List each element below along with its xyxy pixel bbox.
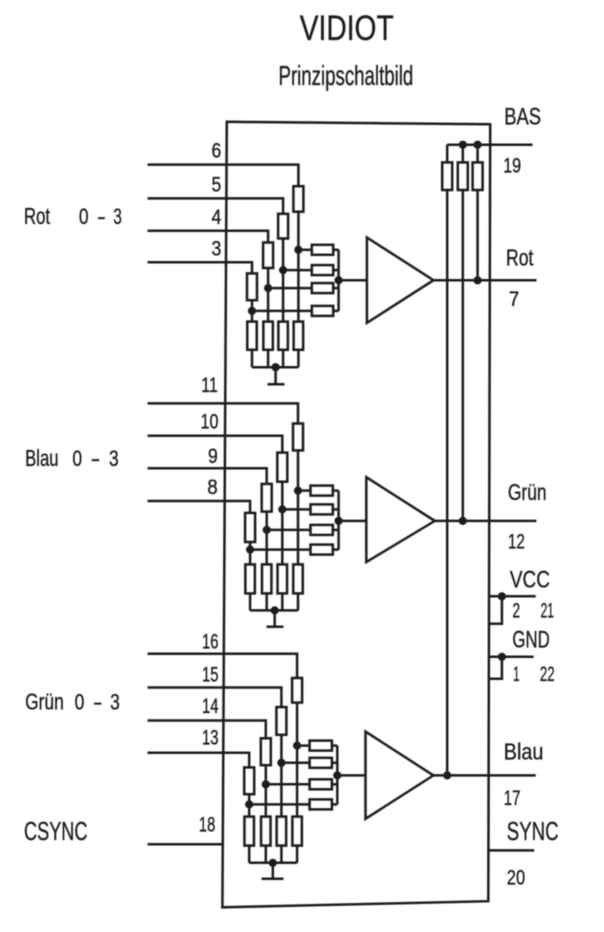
svg-text:22: 22	[540, 662, 555, 686]
ground block 2	[267, 610, 284, 626]
svg-text:VCC: VCC	[510, 567, 550, 594]
wire node to summing resistor	[267, 529, 311, 532]
resistor R25	[292, 678, 302, 703]
resistor R34	[277, 817, 287, 846]
svg-text:10: 10	[201, 410, 219, 434]
wire summing resistor to bus	[333, 287, 338, 290]
resistor R12	[247, 322, 257, 350]
resistor R38	[458, 162, 468, 190]
wire node to summing resistor	[266, 783, 310, 786]
wire input pin 8	[148, 501, 251, 513]
node BAS-chainB junction	[459, 141, 467, 149]
svg-text:14: 14	[202, 694, 219, 718]
node block2 row2	[278, 505, 286, 513]
resistor R35	[261, 817, 271, 846]
resistor R2	[278, 214, 288, 239]
resistor R20	[311, 545, 333, 555]
wire input pin 13	[148, 753, 250, 768]
wire ladder resistor to ground rail	[296, 846, 299, 863]
IC boundary box U1 outline	[222, 122, 490, 908]
svg-text:Rot: Rot	[506, 245, 534, 271]
svg-text:Blau: Blau	[25, 445, 59, 471]
wire summing bus block 2	[337, 491, 340, 550]
wire input pin 11	[148, 403, 299, 423]
resistor R1	[293, 186, 303, 212]
resistor R21	[293, 564, 303, 593]
wire node to summing resistor	[283, 269, 312, 272]
wire ladder resistor to ground rail	[281, 593, 284, 610]
svg-text:-: -	[97, 204, 106, 229]
op-amp U1	[367, 238, 434, 323]
wire ladder resistor to ground rail	[248, 846, 251, 863]
wire ladder resistor to ground rail	[265, 593, 268, 610]
svg-text:Blau: Blau	[504, 738, 544, 764]
svg-text:Grün: Grün	[508, 479, 547, 505]
wire output Rot pin 7	[434, 279, 537, 282]
wire summing bus block 1	[337, 250, 340, 311]
wire chain pin 4 to ladder	[267, 268, 270, 322]
svg-text:20: 20	[507, 865, 525, 889]
node summing junction block 1	[335, 276, 343, 284]
node block3 row2	[277, 759, 285, 767]
wire output Blau pin 17	[433, 774, 535, 777]
wire summing resistor to bus	[333, 310, 338, 313]
resistor R7	[312, 283, 333, 293]
resistor R27	[261, 738, 271, 765]
wire GND pin loop	[490, 657, 502, 679]
wire resistor R38 to Gruen net	[462, 190, 465, 521]
resistor R29	[310, 741, 332, 751]
wire node to summing resistor	[252, 310, 312, 313]
node ground junction block 2	[271, 606, 279, 614]
svg-text:VIDIOT: VIDIOT	[300, 9, 394, 48]
wire VCC pins 2 and 21	[490, 595, 536, 598]
resistor R36	[244, 817, 254, 846]
svg-text:5: 5	[212, 172, 222, 196]
wire resistor R39 to Rot net	[476, 190, 479, 280]
resistor R26	[276, 707, 286, 735]
wire ladder resistor to ground rail	[297, 350, 300, 367]
svg-text:BAS: BAS	[504, 103, 541, 130]
wire summing resistor to bus	[332, 783, 337, 786]
wire summing resistor to bus	[333, 249, 338, 252]
wire node to summing resistor	[297, 744, 310, 747]
resistor R3	[263, 243, 273, 269]
wire summing resistor to bus	[333, 548, 339, 551]
node block3 row1	[293, 742, 301, 750]
wire input pin 5	[148, 198, 284, 213]
resistor R6	[312, 265, 333, 275]
resistor R13	[293, 424, 303, 451]
svg-text:7: 7	[509, 287, 519, 311]
wire to amplifier U3	[337, 774, 365, 777]
resistor R31	[310, 779, 332, 789]
wire input pin 3	[148, 262, 253, 273]
node block2 row3	[263, 526, 271, 534]
wire node to summing resistor	[249, 803, 309, 806]
wire summing resistor to bus	[332, 803, 337, 806]
svg-text:-: -	[93, 690, 103, 715]
wire summing resistor to bus	[333, 489, 339, 492]
wire input pin 9	[148, 468, 267, 484]
wire ladder resistor to ground rail	[282, 350, 285, 367]
wire input CSYNC pin 18	[148, 843, 224, 846]
resistor R15	[262, 484, 272, 512]
wire to amplifier U2	[339, 520, 367, 523]
wire summing bus block 3	[336, 746, 339, 805]
wire node to summing resistor	[281, 762, 309, 765]
node GND junction	[498, 653, 506, 661]
node summing junction block 2	[335, 517, 343, 525]
resistor R11	[263, 322, 273, 350]
resistor R22	[278, 564, 288, 593]
svg-text:0: 0	[72, 446, 82, 471]
resistor R10	[278, 322, 288, 350]
svg-text:Prinzipschaltbild: Prinzipschaltbild	[279, 60, 414, 91]
svg-text:2: 2	[512, 598, 520, 622]
node block2 row4	[246, 546, 254, 554]
wire BAS to resistor R37	[446, 145, 449, 163]
wire chain pin 16 to ladder	[296, 703, 299, 817]
node block1 row4	[248, 307, 256, 315]
resistor R37	[442, 162, 452, 190]
wire ground rail block 1	[252, 366, 298, 369]
svg-text:0: 0	[79, 204, 89, 229]
node Rot-R39 junction	[474, 276, 482, 284]
resistor R39	[473, 162, 483, 190]
wire VCC pin loop	[490, 596, 502, 624]
op-amp U2	[366, 477, 435, 562]
wire chain pin 5 to ladder	[282, 239, 285, 322]
resistor R9	[294, 322, 304, 350]
resistor R4	[247, 273, 257, 300]
node Gruen-R38 junction	[459, 517, 467, 525]
svg-text:11: 11	[201, 373, 218, 397]
svg-text:16: 16	[202, 630, 219, 654]
wire input pin 16	[148, 654, 298, 678]
resistor R23	[262, 564, 272, 593]
wire ladder resistor to ground rail	[267, 350, 270, 367]
wire chain pin 14 to ladder	[265, 765, 268, 816]
ground block 1	[268, 367, 285, 384]
svg-text:6: 6	[212, 139, 222, 163]
svg-text:GND: GND	[512, 627, 549, 654]
node block1 row1	[294, 246, 302, 254]
ground block 3	[262, 863, 284, 879]
wire ground rail block 2	[250, 609, 298, 612]
wire chain pin 6 to ladder	[297, 212, 300, 322]
svg-text:3: 3	[113, 204, 122, 229]
node block1 row2	[279, 266, 287, 274]
resistor R30	[310, 758, 332, 768]
wire input pin 6	[148, 165, 299, 187]
wire chain pin 9 to ladder	[265, 512, 268, 565]
node Blau-R37 junction	[443, 771, 451, 779]
resistor R5	[312, 245, 333, 255]
wire summing resistor to bus	[333, 508, 339, 511]
wire chain pin 15 to ladder	[280, 735, 283, 817]
resistor R17	[311, 486, 333, 496]
wire summing resistor to bus	[333, 269, 338, 272]
svg-text:15: 15	[202, 663, 219, 687]
wire GND pins 1 and 22	[490, 656, 534, 659]
wire summing resistor to bus	[332, 744, 337, 747]
node VCC junction	[498, 592, 506, 600]
wire BAS to resistor R38	[462, 145, 465, 163]
resistor R18	[311, 504, 333, 514]
svg-text:Grün: Grün	[25, 689, 64, 715]
svg-text:12: 12	[508, 529, 525, 553]
svg-text:SYNC: SYNC	[507, 816, 559, 846]
wire input pin 14	[148, 721, 266, 739]
wire ladder resistor to ground rail	[251, 350, 254, 367]
svg-text:21: 21	[541, 598, 554, 622]
wire BAS output net	[447, 143, 532, 146]
wire node to summing resistor	[298, 249, 311, 252]
node block1 row3	[264, 284, 272, 292]
wire output SYNC pin 20	[488, 849, 534, 852]
svg-text:8: 8	[207, 475, 218, 499]
wire output Gruen pin 12	[435, 520, 537, 523]
wire node to summing resistor	[282, 508, 310, 511]
wire input pin 15	[148, 688, 282, 708]
svg-text:0: 0	[75, 690, 85, 715]
resistor R19	[311, 525, 333, 535]
wire chain pin 11 to ladder	[297, 450, 300, 564]
svg-text:9: 9	[208, 444, 218, 468]
wire ladder resistor to ground rail	[265, 846, 268, 863]
svg-text:3: 3	[212, 236, 222, 260]
resistor R24	[245, 564, 255, 593]
node BAS-chainC junction	[474, 141, 482, 149]
resistor R16	[245, 513, 255, 542]
wire summing resistor to bus	[333, 529, 339, 532]
node block3 row3	[262, 780, 270, 788]
svg-text:19: 19	[503, 153, 521, 177]
resistor R33	[292, 817, 302, 846]
wire node to summing resistor	[250, 548, 310, 551]
wire summing resistor to bus	[332, 762, 337, 765]
wire node to summing resistor	[268, 287, 312, 290]
node summing junction block 3	[333, 771, 341, 779]
svg-text:Rot: Rot	[24, 203, 50, 229]
node ground junction block 3	[269, 859, 277, 867]
svg-text:3: 3	[109, 446, 119, 471]
resistor R14	[277, 453, 287, 482]
wire chain pin 13 to ladder	[248, 794, 251, 816]
wire chain pin 8 to ladder	[249, 542, 252, 564]
resistor R28	[244, 767, 254, 794]
wire to amplifier U1	[339, 279, 367, 282]
svg-text:18: 18	[199, 812, 215, 836]
wire input pin 10	[148, 436, 283, 453]
svg-text:4: 4	[212, 205, 222, 229]
wire chain pin 3 to ladder	[251, 300, 254, 321]
node block3 row4	[245, 800, 253, 808]
wire chain pin 10 to ladder	[281, 482, 284, 565]
node block2 row1	[294, 487, 302, 495]
svg-text:-: -	[91, 446, 101, 471]
svg-text:1: 1	[513, 662, 519, 686]
wire node to summing resistor	[298, 489, 311, 492]
resistor R32	[310, 799, 332, 809]
node ground junction block 1	[272, 363, 280, 371]
wire resistor R37 to Blau net	[446, 190, 449, 775]
wire ladder resistor to ground rail	[280, 846, 283, 863]
svg-text:13: 13	[202, 726, 219, 750]
wire ladder resistor to ground rail	[297, 593, 300, 610]
svg-text:CSYNC: CSYNC	[24, 816, 88, 846]
op-amp U3	[366, 732, 434, 819]
svg-text:17: 17	[504, 786, 521, 810]
svg-text:3: 3	[110, 690, 120, 715]
wire input pin 4	[148, 231, 269, 243]
resistor R8	[312, 306, 333, 316]
wire BAS to resistor R39	[476, 145, 479, 163]
wire ladder resistor to ground rail	[249, 593, 252, 610]
wire ground rail block 3	[249, 862, 297, 865]
